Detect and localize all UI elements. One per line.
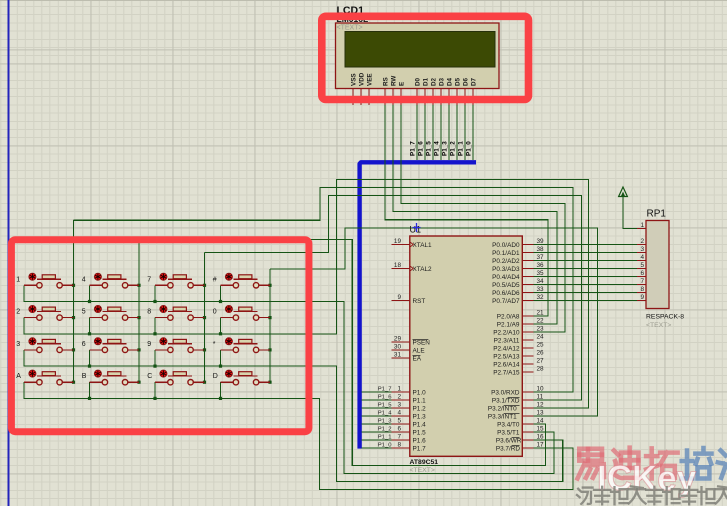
svg-text:P2.3/A11: P2.3/A11 [494,338,520,345]
svg-text:P1_1: P1_1 [378,435,392,441]
svg-text:XTAL1: XTAL1 [413,242,433,249]
push button 2 [16,306,73,321]
svg-text:D: D [213,373,218,380]
svg-text:29: 29 [394,335,402,342]
svg-text:#: # [213,276,217,283]
svg-text:28: 28 [537,365,545,372]
svg-text:P0.0/AD0: P0.0/AD0 [492,242,520,249]
push button 4 [82,273,139,288]
sheet top edge [0,0,727,2]
svg-text:D1: D1 [423,77,430,86]
LCD pins [353,89,473,105]
svg-text:35: 35 [537,270,545,277]
svg-text:P0.2/AD2: P0.2/AD2 [492,258,520,265]
svg-text:P1.7: P1.7 [413,446,427,453]
svg-text:P1_7: P1_7 [378,387,392,393]
svg-text:2: 2 [397,393,401,400]
svg-text:6: 6 [82,341,86,348]
svg-text:*: * [213,341,216,348]
svg-text:P0.4/AD4: P0.4/AD4 [492,274,520,281]
RP1 pins [637,229,646,301]
svg-text:RP1: RP1 [647,209,667,220]
svg-text:1: 1 [16,276,20,283]
svg-text:P1.2: P1.2 [413,406,427,413]
svg-text:P1_0: P1_0 [378,443,392,449]
svg-text:P3.0/RXD: P3.0/RXD [491,390,520,397]
svg-text:P1_3: P1_3 [441,141,448,156]
svg-text:21: 21 [537,309,545,316]
svg-text:D4: D4 [447,77,454,86]
svg-text:RESPACK-8: RESPACK-8 [646,314,684,321]
svg-text:2: 2 [640,238,644,245]
svg-text:RS: RS [383,77,390,86]
svg-text:P2.2/A10: P2.2/A10 [493,330,520,337]
svg-text:VSS: VSS [351,73,358,86]
svg-text:P1_6: P1_6 [378,395,392,401]
net keypad row 3 wire (to P3.6 pin16) [24,350,563,482]
MCU left pin names [413,242,433,453]
svg-text:XTAL2: XTAL2 [413,266,433,273]
svg-text:27: 27 [537,357,545,364]
highlight rectangle around keypad [11,240,309,432]
svg-text:P3.1/TXD: P3.1/TXD [492,398,520,405]
svg-text:D7: D7 [471,77,478,86]
svg-text:12: 12 [537,401,545,408]
wire RW to P2.1 (pin22) [393,105,557,324]
svg-text:39: 39 [537,238,545,245]
svg-text:P0.7/AD7: P0.7/AD7 [492,298,520,305]
svg-text:P3.7/RD: P3.7/RD [496,446,521,453]
resistor pack RP1 body [646,221,669,309]
MCU right pin stubs [522,245,533,449]
svg-text:E: E [399,82,406,86]
svg-text:U1: U1 [410,225,422,235]
svg-text:16: 16 [537,433,545,440]
net keypad column 4 wire (to P3.3 pin13) [270,228,598,416]
svg-text:3: 3 [397,401,401,408]
svg-text:P2.6/A14: P2.6/A14 [493,362,520,369]
push button A [16,370,73,385]
svg-text:17: 17 [537,441,545,448]
push button B [82,370,139,385]
junction dots keypad row lines [88,300,222,400]
svg-text:RST: RST [413,298,426,305]
svg-text:VDD: VDD [359,72,366,86]
svg-text:D6: D6 [463,77,470,86]
bus P1 (LCD data to MCU) [360,162,476,448]
svg-text:PSEN: PSEN [413,340,431,347]
svg-text:15: 15 [537,425,545,432]
net keypad column 2 wire (to P3.4 pin14) [139,240,546,466]
push button 8 [147,306,204,321]
push button 1 [16,273,73,288]
svg-text:4: 4 [397,409,401,416]
svg-text:P3.4/T0: P3.4/T0 [497,422,520,429]
push button 7 [147,273,204,288]
LCD1 label [337,5,369,32]
svg-text:18: 18 [394,262,402,269]
svg-text:38: 38 [537,246,545,253]
svg-text:P1.0: P1.0 [413,390,427,397]
LCD LCD1 body [336,23,500,89]
wire RS to P2.0 (pin21) [385,105,548,316]
svg-text:P1_4: P1_4 [433,141,440,156]
svg-text:33: 33 [537,286,545,293]
wires P0.0-P0.7 to RP1 pins 2-9 [534,245,638,301]
wires button left terminals to row lines [90,285,221,398]
svg-text:2: 2 [16,309,20,316]
svg-text:P0.3/AD3: P0.3/AD3 [492,266,520,273]
svg-text:0: 0 [213,309,217,316]
svg-text:P1_0: P1_0 [465,141,472,156]
svg-text:22: 22 [537,317,545,324]
svg-text:A: A [16,373,21,380]
push button 0 [213,306,270,321]
svg-text:37: 37 [537,254,545,261]
net keypad row 1 wire (to P3.5 pin15) [24,285,554,473]
svg-text:EA: EA [413,356,422,363]
svg-text:P2.1/A9: P2.1/A9 [497,322,520,329]
svg-text:32: 32 [537,294,545,301]
MCU right pin numbers [537,238,545,449]
push button 6 [82,338,139,353]
svg-text:B: B [82,373,87,380]
LCD pin labels [351,72,478,86]
svg-text:9: 9 [640,294,644,301]
svg-text:7: 7 [640,278,644,285]
svg-text:6: 6 [397,425,401,432]
RP1 label [647,209,667,220]
svg-text:1: 1 [397,385,401,392]
RESPACK-8 value label [646,314,684,330]
svg-text:7: 7 [397,433,401,440]
svg-text:P0.6/AD6: P0.6/AD6 [492,290,520,297]
MCU U1 AT89C51 body [410,236,523,456]
svg-text:P1_2: P1_2 [378,427,392,433]
wires bus to P1.0-P1.7 pins [362,392,392,448]
svg-text:24: 24 [537,333,545,340]
highlight rectangle around LCD [322,16,529,99]
push button 3 [16,338,73,353]
svg-text:26: 26 [537,349,545,356]
svg-text:<TEXT>: <TEXT> [337,25,363,32]
MCU right pin names [488,242,522,453]
svg-text:3: 3 [16,341,20,348]
svg-text:<TEXT>: <TEXT> [410,467,435,474]
svg-text:P2.4/A12: P2.4/A12 [493,346,520,353]
svg-text:P1_7: P1_7 [409,141,416,156]
svg-text:4: 4 [82,276,86,283]
wires D0-D7 to bus [417,105,473,160]
svg-text:P2.0/A8: P2.0/A8 [497,314,520,321]
svg-text:P1_2: P1_2 [449,141,456,156]
wire VCC to RP1 pin1 [623,197,646,229]
svg-text:D2: D2 [431,77,438,86]
svg-text:9: 9 [147,341,151,348]
svg-text:8: 8 [640,286,644,293]
svg-text:P1.6: P1.6 [413,438,427,445]
svg-text:C: C [147,373,152,380]
RP1 pin numbers [640,222,644,301]
svg-text:P1.4: P1.4 [413,422,427,429]
svg-text:1: 1 [640,222,644,229]
svg-text:14: 14 [537,417,545,424]
svg-text:9: 9 [397,294,401,301]
push button 9 [147,338,204,353]
svg-text:25: 25 [537,341,545,348]
AT89C51 value label [410,459,439,474]
svg-text:<TEXT>: <TEXT> [646,322,671,329]
push button C [147,370,204,385]
svg-text:P0.1/AD1: P0.1/AD1 [492,250,520,257]
svg-text:5: 5 [640,262,644,269]
svg-text:VEE: VEE [367,73,374,86]
net keypad row 2 wire (to P3.2 pin12) [24,179,589,408]
svg-text:P3.6/WR: P3.6/WR [496,438,522,445]
MCU left pin stubs [392,245,410,449]
svg-text:P3.3/INT1: P3.3/INT1 [488,414,517,421]
svg-text:D5: D5 [455,77,462,86]
XTAL clock markers [410,242,413,271]
svg-text:P2.5/A13: P2.5/A13 [493,354,520,361]
svg-text:P1.3: P1.3 [413,414,427,421]
power symbol VCC [619,187,628,197]
svg-text:4: 4 [640,254,644,261]
svg-text:P1_5: P1_5 [378,403,392,409]
svg-text:P1_5: P1_5 [425,141,432,156]
svg-text:P1_6: P1_6 [417,141,424,156]
svg-text:ALE: ALE [413,348,425,355]
svg-text:36: 36 [537,262,545,269]
MCU left pin numbers [394,238,402,449]
svg-text:AT89C51: AT89C51 [410,459,439,466]
svg-text:30: 30 [394,343,402,350]
svg-text:D0: D0 [415,77,422,86]
svg-text:7: 7 [147,276,151,283]
push button 5 [82,306,139,321]
svg-text:19: 19 [394,238,402,245]
svg-text:P1_1: P1_1 [457,141,464,156]
svg-text:3: 3 [640,246,644,253]
net keypad column 3 wire (to P3.1 pin11) [205,195,582,400]
push button # [213,273,270,288]
U1 label [410,223,422,235]
svg-text:RW: RW [391,76,398,86]
sheet border (blue) [8,0,10,506]
svg-text:P3.5/T1: P3.5/T1 [497,430,520,437]
svg-text:P3.2/INT0: P3.2/INT0 [488,406,517,413]
svg-text:5: 5 [82,309,86,316]
svg-text:P0.5/AD5: P0.5/AD5 [492,282,520,289]
net keypad row 4 wire (to P3.7 pin17) [24,382,573,489]
net labels P1_7..P1_0 on LCD data wires [409,141,472,156]
svg-text:23: 23 [537,325,545,332]
wire E to P2.2 (pin23) [401,105,565,332]
svg-text:34: 34 [537,278,545,285]
svg-text:31: 31 [394,351,402,358]
net keypad column 1 wire (to P3.0 pin10) [74,188,574,392]
svg-text:P1_4: P1_4 [378,411,392,417]
watermark [577,448,727,505]
svg-text:8: 8 [147,309,151,316]
push button D [213,370,270,385]
svg-text:P2.7/A15: P2.7/A15 [493,370,520,377]
svg-text:6: 6 [640,270,644,277]
push button * [213,338,270,353]
net labels P1_7..P1_0 at MCU P1 pins [378,387,392,449]
svg-text:P1_3: P1_3 [378,419,392,425]
svg-text:P1.5: P1.5 [413,430,427,437]
svg-text:13: 13 [537,409,545,416]
svg-text:5: 5 [397,417,401,424]
junction dots keypad columns [72,284,272,384]
svg-text:D3: D3 [439,77,446,86]
svg-text:8: 8 [397,441,401,448]
svg-text:10: 10 [537,385,545,392]
svg-text:11: 11 [537,393,544,400]
svg-text:P1.1: P1.1 [413,398,427,405]
